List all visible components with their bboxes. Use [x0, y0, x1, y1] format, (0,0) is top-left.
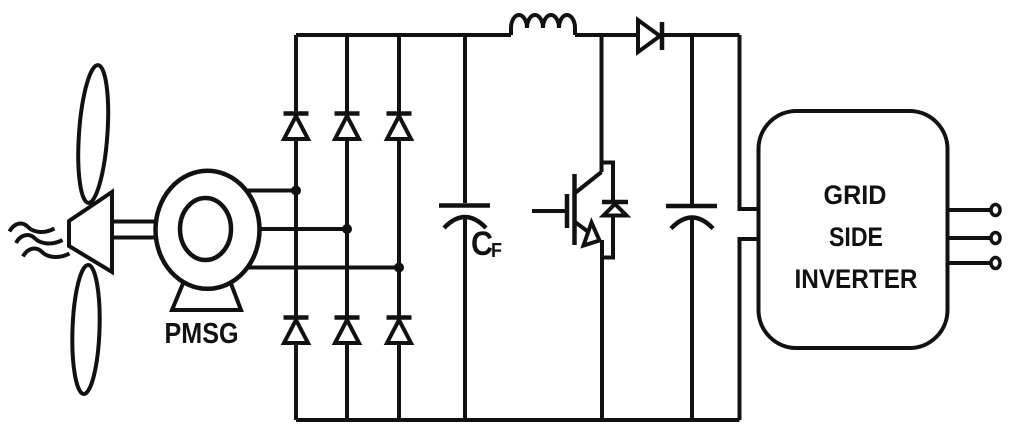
diode D1 — [284, 114, 309, 140]
turbine blade top — [74, 64, 112, 204]
svg-text:C: C — [471, 225, 493, 263]
phase wire A — [210, 189, 296, 193]
svg-text:SIDE: SIDE — [829, 222, 883, 252]
wind line 3 — [23, 249, 70, 257]
top bus wire — [296, 33, 740, 37]
PMSG body — [156, 171, 260, 289]
antiparallel diode branch wire bottom — [602, 216, 613, 258]
output terminal 3 — [991, 258, 1000, 269]
output wire 1 — [948, 208, 992, 212]
node A junction dot — [291, 186, 301, 196]
DC link capacitor C2 — [666, 35, 717, 420]
wind line 1 — [10, 224, 55, 232]
filter capacitor CF — [439, 35, 490, 420]
bottom bus wire — [296, 418, 740, 422]
diode D4 — [284, 318, 309, 344]
shaft — [112, 222, 166, 238]
inverter input wire top — [740, 35, 759, 209]
boost diode D7 — [638, 20, 662, 52]
phase wire B — [210, 227, 347, 231]
svg-text:INVERTER: INVERTER — [795, 264, 918, 294]
rectifier leg 1 wire — [294, 35, 298, 420]
diode D2 — [335, 114, 360, 140]
IGBT Q1 emitter wire — [600, 240, 604, 420]
antiparallel diode — [602, 202, 628, 216]
inverter input wire bottom — [740, 239, 759, 420]
grid side inverter box U1 — [759, 111, 948, 348]
svg-text:PMSG: PMSG — [165, 318, 239, 350]
CF value label — [471, 225, 502, 263]
hub nose cone — [69, 192, 112, 272]
phase wire C — [210, 266, 399, 270]
wind line 2 — [16, 235, 63, 243]
rectifier leg 3 wire — [397, 35, 401, 420]
output terminal 1 — [991, 205, 1000, 216]
node C junction dot — [394, 263, 404, 273]
diode D5 — [335, 318, 360, 344]
diode D6 — [387, 318, 412, 344]
svg-text:GRID: GRID — [824, 180, 887, 210]
output wire 3 — [948, 261, 992, 265]
turbine blade bottom — [70, 265, 101, 395]
inductor L — [511, 15, 575, 35]
diode D3 — [387, 114, 412, 140]
svg-text:F: F — [491, 240, 502, 262]
rectifier leg 2 wire — [345, 35, 349, 420]
inverter label — [795, 180, 918, 294]
output wire 2 — [948, 236, 992, 240]
output terminal 2 — [991, 233, 1000, 244]
antiparallel diode branch wire top — [602, 163, 614, 201]
IGBT Q1 — [532, 172, 602, 246]
IGBT Q1 collector wire — [600, 35, 604, 172]
PMSG inner ring — [180, 198, 231, 260]
PMSG stand — [172, 281, 241, 310]
node B junction dot — [342, 224, 352, 234]
